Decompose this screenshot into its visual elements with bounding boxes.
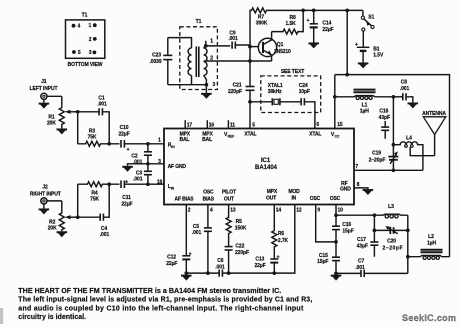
svg-text:10: 10 xyxy=(338,208,344,214)
capacitor C12 electrolytic on pin 2 xyxy=(166,205,191,275)
svg-text:43pF: 43pF xyxy=(357,243,368,249)
svg-text:C19: C19 xyxy=(372,150,381,156)
svg-text:20K: 20K xyxy=(47,121,56,127)
svg-text:150K: 150K xyxy=(235,226,247,232)
svg-text:C13: C13 xyxy=(255,256,264,262)
ground below R2 xyxy=(57,232,68,237)
jack J1 LEFT INPUT xyxy=(30,79,62,103)
svg-text:C8: C8 xyxy=(401,79,408,85)
capacitor C16 on pin 10 xyxy=(332,205,354,258)
ground below C15 xyxy=(331,276,342,281)
transistor Q1 xyxy=(258,32,291,61)
jack J2 RIGHT INPUT xyxy=(30,184,62,208)
svg-text:XTAL: XTAL xyxy=(244,132,256,138)
svg-text:.001: .001 xyxy=(192,230,202,236)
svg-text:1µH: 1µH xyxy=(360,109,369,115)
resistor R3 xyxy=(78,128,120,146)
svg-text:22µF: 22µF xyxy=(121,201,132,207)
wire bottom ground rail xyxy=(186,205,294,274)
capacitor C3 xyxy=(133,164,152,186)
svg-text:1: 1 xyxy=(210,39,213,45)
svg-text:2–20pF: 2–20pF xyxy=(369,157,386,163)
svg-text:20K: 20K xyxy=(48,225,57,231)
svg-text:17: 17 xyxy=(187,123,193,129)
ground below C8 xyxy=(408,103,419,108)
battery B1 xyxy=(355,31,384,62)
capacitor C4 xyxy=(78,184,110,238)
svg-text:13: 13 xyxy=(230,208,236,214)
IC top inside labels xyxy=(179,132,339,144)
svg-text:OSC: OSC xyxy=(330,196,341,202)
svg-text:PILOT: PILOT xyxy=(222,190,236,196)
svg-text:22µF: 22µF xyxy=(118,131,129,137)
svg-text:16: 16 xyxy=(209,123,215,129)
svg-text:circuitry is identical.: circuitry is identical. xyxy=(18,314,86,321)
capacitor C20 variable xyxy=(374,226,407,251)
svg-text:BAL: BAL xyxy=(179,137,189,143)
svg-text:BA1404: BA1404 xyxy=(255,165,278,171)
svg-text:C10: C10 xyxy=(120,125,129,131)
svg-text:.001: .001 xyxy=(215,264,225,270)
node T1 pin 3 xyxy=(205,82,216,93)
capacitor C24 xyxy=(299,83,315,129)
svg-text:SeekIC.com: SeekIC.com xyxy=(402,313,456,323)
wire C23 loop to transformer primary xyxy=(168,38,207,85)
svg-text:T1: T1 xyxy=(196,19,202,25)
capacitor C9 xyxy=(228,30,250,48)
capacitor C14 electrolytic xyxy=(307,9,334,43)
svg-text:OSC: OSC xyxy=(310,196,321,202)
ground below R1 xyxy=(57,129,68,134)
svg-text:L3: L3 xyxy=(388,204,394,210)
inductor L2 xyxy=(408,234,450,259)
svg-text:RIGHT INPUT: RIGHT INPUT xyxy=(30,191,61,197)
svg-text:L2: L2 xyxy=(428,234,434,240)
svg-text:LEFT INPUT: LEFT INPUT xyxy=(30,86,58,92)
wire pin 10 to tank xyxy=(336,214,374,216)
svg-text:S1: S1 xyxy=(368,14,374,20)
node T1 pin 2 xyxy=(204,56,272,62)
svg-text:4: 4 xyxy=(210,208,213,214)
svg-text:C17: C17 xyxy=(357,237,366,243)
capacitor C2 xyxy=(131,144,152,166)
svg-text:+: + xyxy=(307,18,310,24)
capacitor C21 xyxy=(228,47,254,129)
capacitor C13 electrolytic on pin 14 xyxy=(254,255,279,275)
svg-text:2–20pF: 2–20pF xyxy=(383,245,403,251)
svg-text:T1: T1 xyxy=(82,13,88,19)
capacitor C17 xyxy=(357,237,379,250)
node L4 junction xyxy=(392,143,396,147)
IC left inside labels xyxy=(168,143,187,191)
node AF GND pin 3 wire xyxy=(128,162,165,166)
capacitor C22 on pin 13 xyxy=(225,243,249,275)
svg-text:AF GND: AF GND xyxy=(168,164,187,170)
capacitor C15 on pin 10 xyxy=(317,253,340,275)
node pin1 line junction xyxy=(146,142,150,146)
svg-text:14: 14 xyxy=(276,208,282,214)
ground below J2 xyxy=(39,209,50,214)
svg-text:C15: C15 xyxy=(319,253,328,259)
svg-text:C7: C7 xyxy=(358,258,365,264)
svg-text:C24: C24 xyxy=(299,83,308,89)
svg-text:C21: C21 xyxy=(233,82,242,88)
capacitor C19 variable xyxy=(369,97,399,171)
svg-text:IN: IN xyxy=(171,145,175,149)
capacitor C11 electrolytic xyxy=(121,179,164,207)
IC right inside labels RF GND xyxy=(340,181,351,193)
transformer T1 windings and core xyxy=(188,47,207,85)
pin 16 stub xyxy=(207,120,214,128)
svg-text:11: 11 xyxy=(230,123,235,129)
pin 17 stub xyxy=(185,120,192,128)
svg-text:R8: R8 xyxy=(290,15,297,21)
svg-text:12: 12 xyxy=(296,208,302,214)
node Q1 base junction xyxy=(248,45,258,49)
wire tank right vertical xyxy=(406,215,410,273)
svg-text:2: 2 xyxy=(89,37,92,43)
svg-text:3: 3 xyxy=(89,50,92,56)
svg-text:R6: R6 xyxy=(278,231,285,237)
svg-text:2: 2 xyxy=(188,208,191,214)
svg-text:+: + xyxy=(127,147,130,153)
resistor R4 xyxy=(78,182,120,203)
ground at pin 8 xyxy=(363,190,374,195)
svg-text:15: 15 xyxy=(337,122,343,128)
svg-text:OSC: OSC xyxy=(203,190,214,196)
dashed box SEE TEXT xyxy=(261,69,321,112)
antenna symbol xyxy=(422,111,446,156)
pin 11 stub xyxy=(228,120,235,128)
svg-text:C16: C16 xyxy=(342,222,351,228)
svg-text:.001: .001 xyxy=(97,101,107,107)
svg-text:L1: L1 xyxy=(362,102,368,108)
svg-text:C23: C23 xyxy=(152,53,161,59)
svg-text:MOD: MOD xyxy=(288,189,300,195)
svg-text:1: 1 xyxy=(158,138,161,144)
node R2 wiper junction xyxy=(76,184,80,219)
capacitor C1 xyxy=(78,95,110,144)
svg-text:C20: C20 xyxy=(387,239,396,245)
svg-text:GND: GND xyxy=(340,187,351,193)
inductor L4 xyxy=(393,136,423,171)
svg-text:OUT: OUT xyxy=(266,195,276,201)
svg-text:5: 5 xyxy=(78,50,81,56)
svg-text:L4: L4 xyxy=(406,136,412,142)
wire pin 7 line xyxy=(354,168,423,172)
svg-text:8: 8 xyxy=(357,182,360,188)
svg-text:The left input-signal level is: The left input-signal level is adjusted … xyxy=(18,297,312,304)
switch S1 xyxy=(361,10,374,31)
inductor L3 xyxy=(373,204,408,218)
svg-text:220pF: 220pF xyxy=(235,250,249,256)
transformer T1 dashed enclosure xyxy=(180,19,218,90)
svg-text:1: 1 xyxy=(89,23,92,29)
capacitor C7 xyxy=(336,258,408,277)
svg-text:4: 4 xyxy=(78,24,81,30)
ground below J1 xyxy=(39,104,50,109)
svg-text:and audio is coupled by C10 in: and audio is coupled by C10 into the lef… xyxy=(18,305,304,312)
svg-text:220pF: 220pF xyxy=(228,89,242,95)
svg-text:C12: C12 xyxy=(167,255,176,261)
wire Vcc riser to pin 15 xyxy=(333,75,337,129)
pin 7 stub and label xyxy=(355,164,358,170)
resistor R2 potentiometer xyxy=(48,201,78,232)
ground below C14 xyxy=(308,43,319,48)
svg-text:SEE TEXT: SEE TEXT xyxy=(281,69,304,75)
svg-text:22µF: 22µF xyxy=(166,261,177,267)
svg-text:BIAS: BIAS xyxy=(203,196,215,202)
capacitor C6 in bottom rail xyxy=(215,258,225,277)
svg-text:6: 6 xyxy=(316,122,319,128)
svg-text:75K: 75K xyxy=(88,134,97,140)
svg-text:IC1: IC1 xyxy=(261,158,271,164)
svg-text:15pF: 15pF xyxy=(317,259,328,265)
capacitor C5 on pin 4 xyxy=(192,205,212,275)
svg-text:BAL: BAL xyxy=(202,137,212,143)
resistor R1 potentiometer xyxy=(47,96,78,128)
svg-text:1.5K: 1.5K xyxy=(286,21,297,27)
svg-text:10pF: 10pF xyxy=(299,89,310,95)
transformer T1 bottom view package diagram xyxy=(66,13,105,69)
svg-text:J2: J2 xyxy=(42,184,48,190)
svg-text:C14: C14 xyxy=(322,20,331,26)
wire battery feed riser xyxy=(345,9,349,77)
svg-text:C11: C11 xyxy=(122,195,131,201)
svg-text:R5: R5 xyxy=(236,219,243,225)
svg-text:C18: C18 xyxy=(379,109,388,115)
crystal XTAL1 38kHz xyxy=(250,83,301,105)
svg-text:CC: CC xyxy=(335,135,340,139)
node T1 pin 1 xyxy=(204,39,231,48)
pin 8 stub ground xyxy=(354,182,368,189)
svg-text:Q1: Q1 xyxy=(277,42,284,48)
wire tank left vertical with C17 xyxy=(373,215,377,257)
node L1 C8 junction xyxy=(392,95,396,99)
svg-text:390K: 390K xyxy=(256,21,268,27)
svg-text:.0039: .0039 xyxy=(149,59,161,65)
svg-text:J1: J1 xyxy=(41,79,47,85)
svg-text:ANTENNA: ANTENNA xyxy=(422,111,446,117)
svg-text:1.5V: 1.5V xyxy=(373,53,384,59)
capacitor C8 xyxy=(393,79,412,102)
svg-text:7: 7 xyxy=(355,164,358,170)
capacitor C10 electrolytic xyxy=(118,125,164,153)
resistor R7 xyxy=(250,8,303,47)
capacitor C18 xyxy=(379,109,390,139)
op-amp IC1 BA1404 body xyxy=(164,129,354,205)
svg-text:43pF: 43pF xyxy=(379,115,390,121)
svg-text:BOTTOM VIEW: BOTTOM VIEW xyxy=(68,62,103,68)
wire antenna tap on L4 xyxy=(410,147,434,156)
svg-text:22µF: 22µF xyxy=(254,263,265,269)
resistor R6 on pin 14 xyxy=(272,205,289,259)
svg-text:OUT: OUT xyxy=(224,196,234,202)
ground below B1 xyxy=(358,63,369,68)
svg-text:2.7K: 2.7K xyxy=(278,238,289,244)
svg-text:.001: .001 xyxy=(400,86,410,92)
svg-text:REF: REF xyxy=(228,135,235,139)
svg-text:15pF: 15pF xyxy=(342,229,353,235)
svg-text:C5: C5 xyxy=(193,224,200,230)
svg-text:.001: .001 xyxy=(228,36,238,42)
svg-text:MPX: MPX xyxy=(267,189,278,195)
svg-text:IN: IN xyxy=(291,195,296,201)
svg-text:THE HEART OF THE FM TRANSMITTE: THE HEART OF THE FM TRANSMITTER is a BA1… xyxy=(18,288,281,295)
svg-text:75K: 75K xyxy=(90,197,99,203)
svg-text:AF BIAS: AF BIAS xyxy=(175,196,195,202)
svg-text:22µF: 22µF xyxy=(322,27,333,33)
svg-text:.001: .001 xyxy=(100,232,110,238)
svg-text:38kHz: 38kHz xyxy=(268,89,282,95)
svg-text:3: 3 xyxy=(213,82,216,88)
svg-text:1µH: 1µH xyxy=(427,240,436,246)
svg-text:.001: .001 xyxy=(133,176,143,182)
svg-text:XTAL1: XTAL1 xyxy=(268,83,283,89)
svg-text:C6: C6 xyxy=(217,258,224,264)
svg-text:9: 9 xyxy=(317,208,320,214)
node R1 wiper junction xyxy=(76,110,80,144)
svg-text:5: 5 xyxy=(252,123,255,129)
ground at bottom rail xyxy=(181,276,192,281)
scan artifact left edge xyxy=(0,308,3,324)
caption text xyxy=(18,288,312,321)
svg-text:IN: IN xyxy=(171,186,175,190)
inductor L1 xyxy=(335,90,394,115)
svg-text:C22: C22 xyxy=(235,243,244,249)
capacitor C23 xyxy=(149,38,172,85)
resistor R8 xyxy=(272,9,305,35)
ground at C2/C3 node xyxy=(122,167,133,172)
IC bottom inside labels xyxy=(175,189,341,202)
ground below T1 pin 3 xyxy=(201,94,212,99)
wire Vcc rail xyxy=(335,75,450,257)
svg-text:XTAL: XTAL xyxy=(309,132,321,138)
wire top rail to S1 xyxy=(303,9,363,11)
wire pin 9 column xyxy=(316,205,336,242)
resistor R5 on pin 13 xyxy=(226,205,247,247)
